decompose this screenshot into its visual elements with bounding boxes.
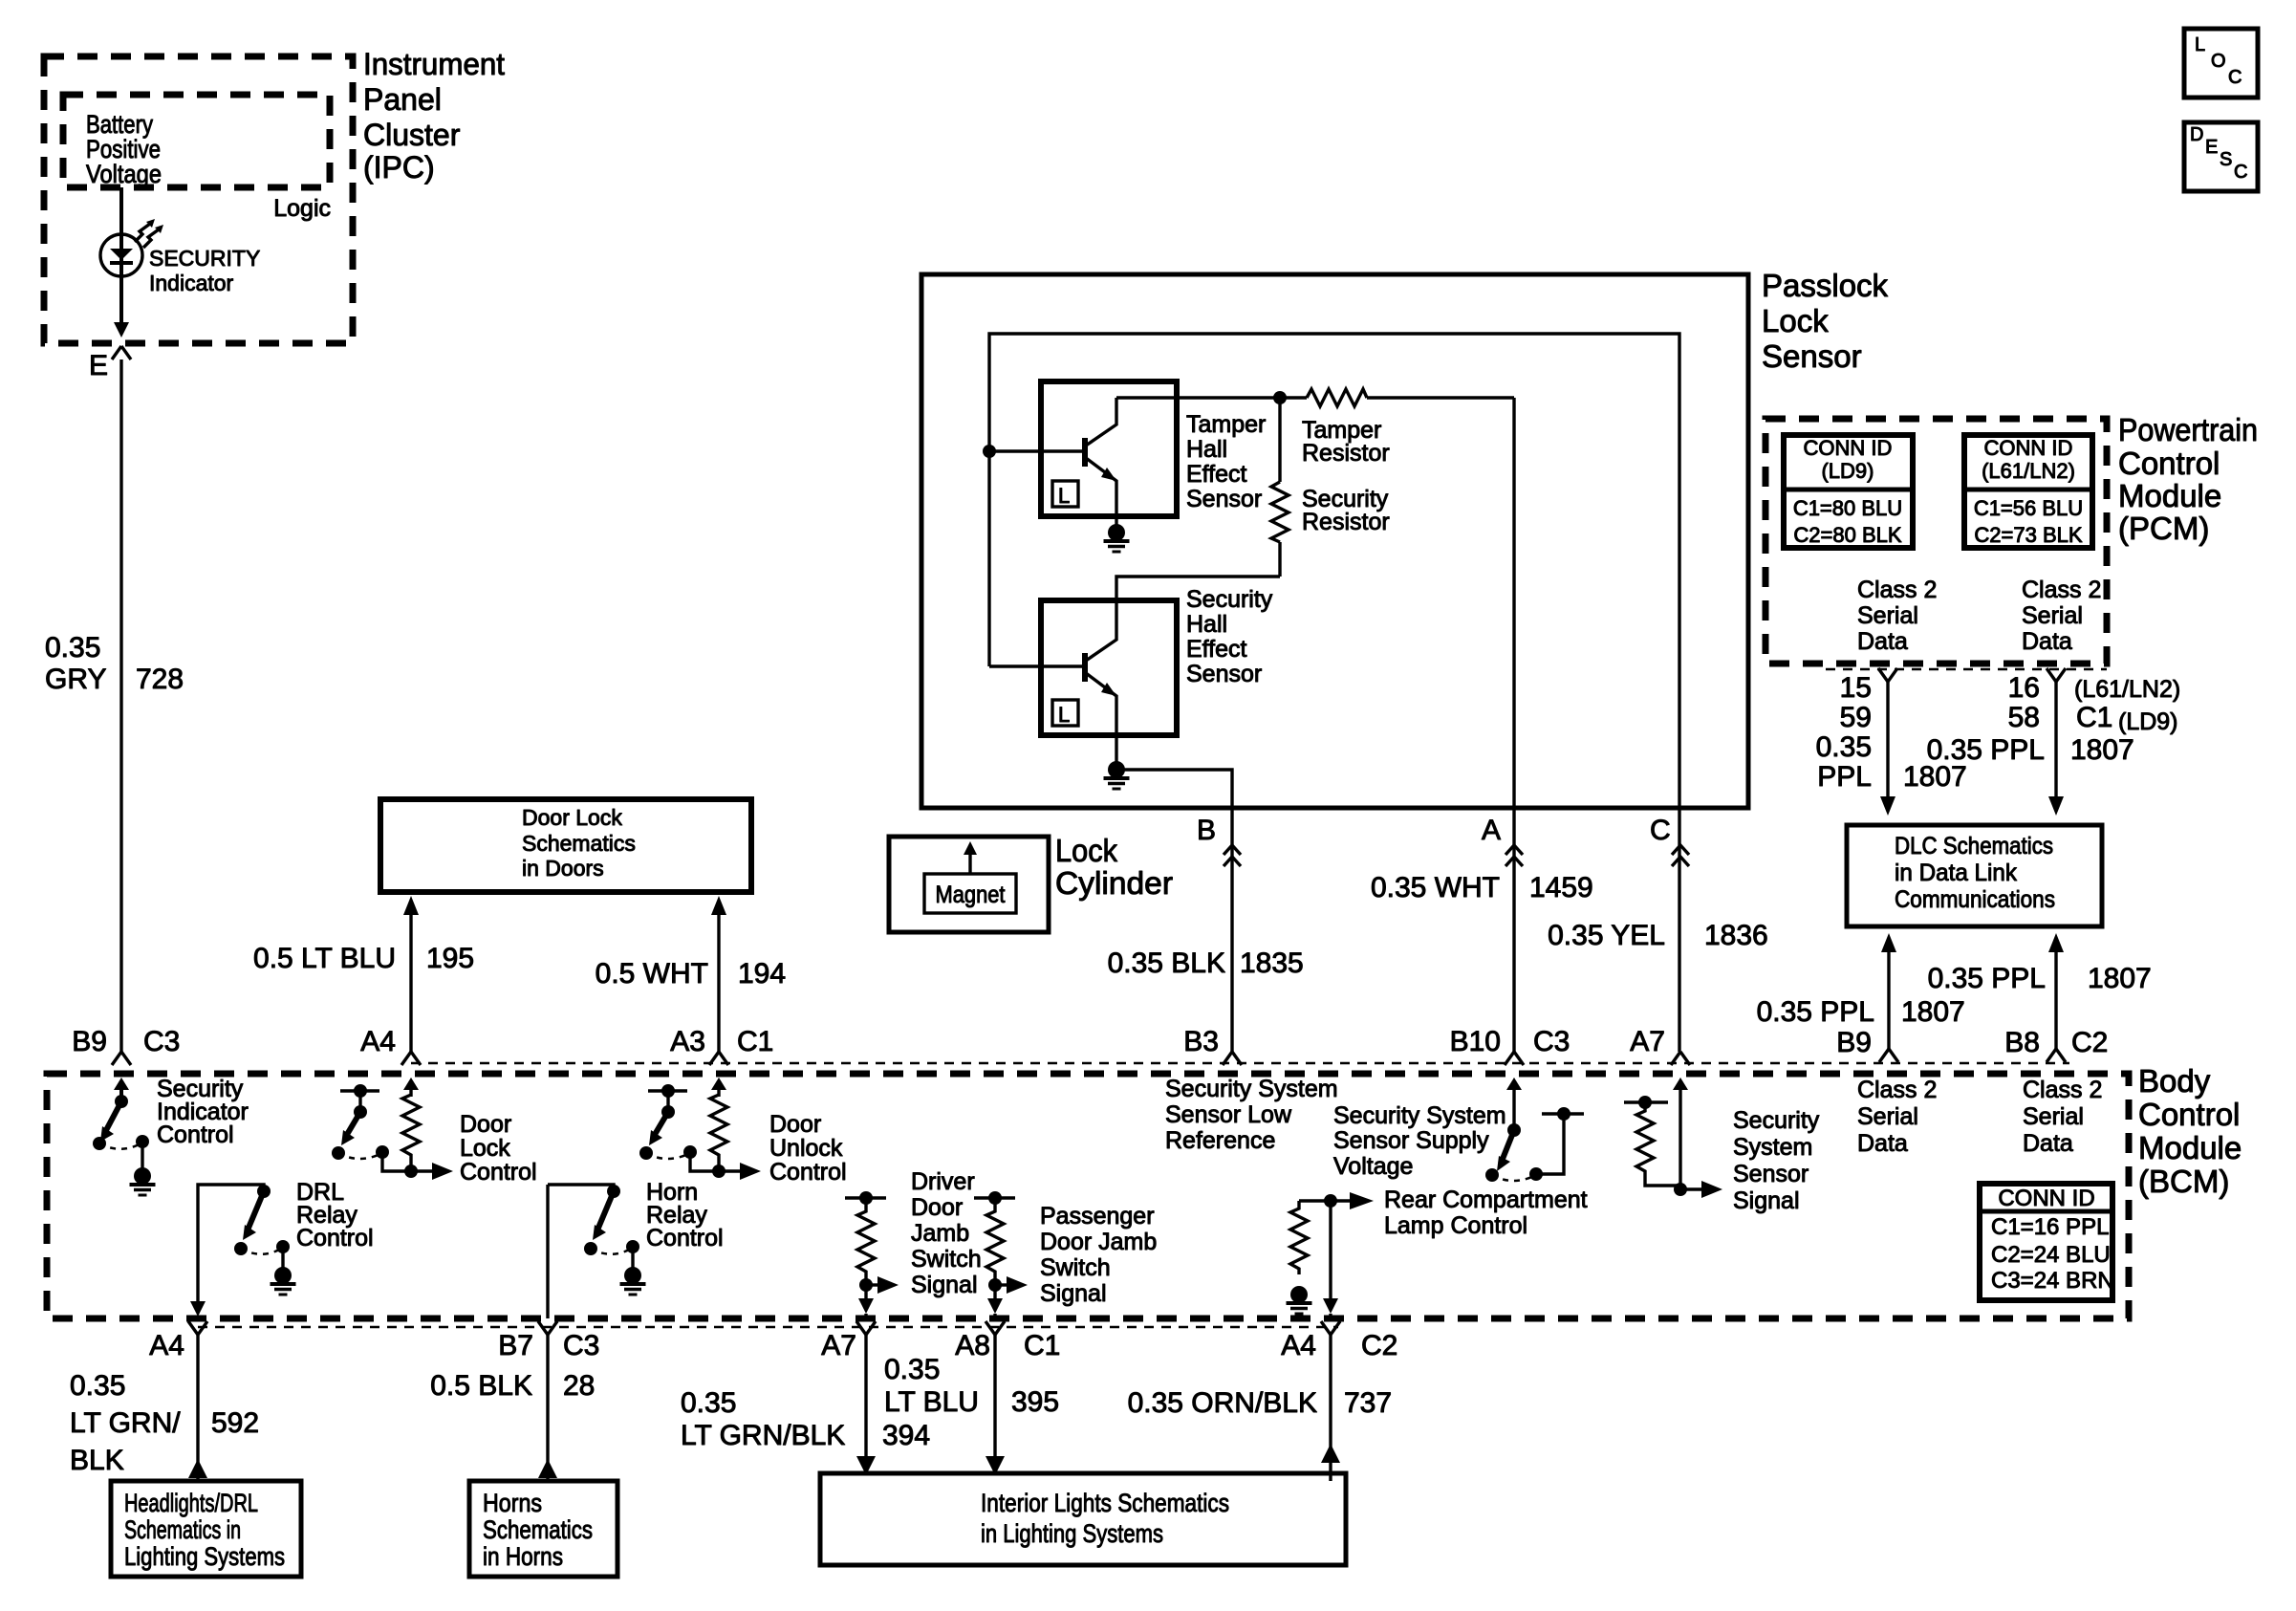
svg-text:Sensor: Sensor bbox=[1186, 486, 1262, 512]
svg-text:A3: A3 bbox=[670, 1026, 705, 1057]
svg-text:Driver: Driver bbox=[911, 1168, 975, 1195]
svg-text:Passenger: Passenger bbox=[1040, 1203, 1155, 1230]
svg-text:Lock: Lock bbox=[1762, 303, 1829, 338]
svg-text:Hall: Hall bbox=[1186, 611, 1227, 638]
svg-text:in Lighting Systems: in Lighting Systems bbox=[981, 1519, 1163, 1548]
svg-text:C1: C1 bbox=[737, 1026, 773, 1057]
svg-text:C1=16 PPL: C1=16 PPL bbox=[1991, 1214, 2109, 1240]
svg-text:Communications: Communications bbox=[1895, 886, 2055, 913]
svg-text:C2=24 BLU: C2=24 BLU bbox=[1991, 1242, 2111, 1268]
svg-text:Door: Door bbox=[460, 1111, 511, 1138]
svg-text:195: 195 bbox=[426, 943, 474, 974]
svg-text:Data: Data bbox=[2023, 1130, 2073, 1157]
svg-text:Control: Control bbox=[157, 1121, 234, 1148]
svg-text:Voltage: Voltage bbox=[1333, 1153, 1413, 1180]
svg-text:E: E bbox=[2205, 137, 2218, 158]
svg-text:Switch: Switch bbox=[1040, 1254, 1111, 1281]
svg-text:Signal: Signal bbox=[911, 1272, 978, 1298]
svg-text:(L61/LN2): (L61/LN2) bbox=[2074, 676, 2180, 703]
svg-text:Horns: Horns bbox=[483, 1489, 542, 1517]
svg-text:Door: Door bbox=[769, 1111, 821, 1138]
svg-text:in Data Link: in Data Link bbox=[1895, 860, 2017, 886]
svg-text:CONN ID: CONN ID bbox=[1984, 436, 2073, 460]
svg-text:Powertrain: Powertrain bbox=[2118, 412, 2258, 447]
svg-text:Passlock: Passlock bbox=[1762, 268, 1889, 303]
svg-text:A4: A4 bbox=[1281, 1330, 1316, 1361]
svg-text:Door Lock: Door Lock bbox=[522, 805, 622, 830]
svg-text:Cluster: Cluster bbox=[363, 118, 461, 152]
svg-text:Control: Control bbox=[769, 1159, 847, 1186]
svg-text:C1: C1 bbox=[1024, 1330, 1060, 1361]
svg-text:Reference: Reference bbox=[1165, 1127, 1275, 1154]
svg-text:0.35 WHT: 0.35 WHT bbox=[1371, 872, 1500, 903]
svg-text:B9: B9 bbox=[72, 1026, 107, 1057]
svg-text:C2: C2 bbox=[2071, 1027, 2108, 1058]
svg-text:0.5 WHT: 0.5 WHT bbox=[596, 958, 708, 990]
svg-text:Serial: Serial bbox=[2022, 602, 2083, 629]
svg-text:Voltage: Voltage bbox=[86, 160, 162, 188]
svg-text:C: C bbox=[2228, 67, 2242, 88]
svg-text:1459: 1459 bbox=[1529, 872, 1593, 903]
svg-text:B3: B3 bbox=[1183, 1026, 1219, 1057]
svg-text:Panel: Panel bbox=[363, 82, 442, 117]
svg-text:(LD9): (LD9) bbox=[1821, 459, 1874, 483]
svg-text:L: L bbox=[1058, 484, 1070, 508]
svg-text:Lighting Systems: Lighting Systems bbox=[124, 1542, 285, 1571]
svg-text:Security System: Security System bbox=[1333, 1102, 1506, 1129]
svg-text:C1=80 BLU: C1=80 BLU bbox=[1793, 496, 1902, 520]
svg-text:System: System bbox=[1733, 1134, 1812, 1161]
svg-text:C3: C3 bbox=[1533, 1026, 1570, 1057]
svg-text:Control: Control bbox=[296, 1225, 374, 1252]
svg-text:C2: C2 bbox=[1361, 1330, 1397, 1361]
svg-text:(LD9): (LD9) bbox=[2118, 708, 2178, 735]
svg-text:1807: 1807 bbox=[2088, 963, 2152, 994]
svg-text:Sensor: Sensor bbox=[1186, 661, 1262, 687]
svg-text:Class 2: Class 2 bbox=[1857, 1077, 1937, 1103]
svg-text:194: 194 bbox=[738, 958, 786, 990]
svg-text:LT BLU: LT BLU bbox=[884, 1386, 979, 1418]
svg-text:S: S bbox=[2220, 149, 2232, 170]
svg-text:in Doors: in Doors bbox=[522, 856, 604, 881]
svg-text:0.35: 0.35 bbox=[884, 1354, 940, 1385]
svg-text:Signal: Signal bbox=[1040, 1280, 1107, 1307]
svg-text:Signal: Signal bbox=[1733, 1187, 1800, 1214]
svg-text:728: 728 bbox=[136, 664, 184, 695]
svg-text:O: O bbox=[2211, 51, 2226, 72]
svg-text:Schematics in: Schematics in bbox=[124, 1515, 241, 1544]
svg-text:Schematics: Schematics bbox=[522, 831, 636, 856]
svg-text:58: 58 bbox=[2008, 702, 2040, 733]
svg-text:737: 737 bbox=[1344, 1387, 1392, 1419]
svg-text:C: C bbox=[2234, 162, 2247, 183]
svg-text:Class 2: Class 2 bbox=[1857, 577, 1937, 603]
svg-text:15: 15 bbox=[1840, 672, 1872, 704]
svg-text:1807: 1807 bbox=[2070, 734, 2134, 766]
svg-text:(BCM): (BCM) bbox=[2138, 1164, 2229, 1199]
svg-text:Cylinder: Cylinder bbox=[1055, 865, 1173, 901]
svg-text:L: L bbox=[1058, 703, 1070, 727]
svg-text:Sensor Low: Sensor Low bbox=[1165, 1101, 1292, 1128]
svg-text:Effect: Effect bbox=[1186, 636, 1247, 663]
svg-text:Schematics: Schematics bbox=[483, 1515, 593, 1544]
svg-text:A7: A7 bbox=[1630, 1026, 1665, 1057]
svg-text:GRY: GRY bbox=[45, 664, 106, 695]
svg-text:Lamp Control: Lamp Control bbox=[1384, 1212, 1527, 1239]
svg-text:CONN ID: CONN ID bbox=[1998, 1186, 2094, 1211]
svg-text:Module: Module bbox=[2118, 478, 2221, 513]
svg-text:LT GRN/BLK: LT GRN/BLK bbox=[681, 1420, 845, 1451]
svg-text:Security: Security bbox=[1733, 1107, 1820, 1134]
svg-text:Security: Security bbox=[1186, 586, 1273, 613]
svg-text:0.35 PPL: 0.35 PPL bbox=[1928, 963, 2046, 994]
svg-text:Interior Lights Schematics: Interior Lights Schematics bbox=[981, 1489, 1229, 1517]
svg-text:A4: A4 bbox=[360, 1026, 396, 1057]
svg-text:A4: A4 bbox=[149, 1330, 184, 1361]
svg-text:16: 16 bbox=[2008, 672, 2040, 704]
svg-text:Door Jamb: Door Jamb bbox=[1040, 1229, 1157, 1255]
svg-text:E: E bbox=[89, 350, 108, 381]
svg-text:(IPC): (IPC) bbox=[363, 150, 435, 185]
svg-text:B: B bbox=[1197, 815, 1216, 846]
svg-text:A7: A7 bbox=[821, 1330, 856, 1361]
svg-text:Tamper: Tamper bbox=[1186, 411, 1266, 438]
svg-text:BLK: BLK bbox=[70, 1445, 124, 1476]
svg-text:A: A bbox=[1482, 815, 1501, 846]
svg-text:Effect: Effect bbox=[1186, 461, 1247, 488]
svg-text:B10: B10 bbox=[1450, 1026, 1501, 1057]
svg-text:D: D bbox=[2190, 124, 2203, 145]
svg-text:Indicator: Indicator bbox=[149, 271, 234, 295]
svg-text:0.35 PPL: 0.35 PPL bbox=[1927, 734, 2045, 766]
svg-text:Door: Door bbox=[911, 1194, 963, 1221]
svg-text:L: L bbox=[2195, 34, 2205, 55]
svg-text:A8: A8 bbox=[955, 1330, 990, 1361]
svg-text:C2=73 BLK: C2=73 BLK bbox=[1974, 523, 2082, 547]
svg-text:Headlights/DRL: Headlights/DRL bbox=[124, 1489, 258, 1517]
svg-text:(L61/LN2): (L61/LN2) bbox=[1982, 459, 2075, 483]
svg-text:Instrument: Instrument bbox=[363, 47, 505, 81]
svg-text:in Horns: in Horns bbox=[483, 1542, 563, 1571]
svg-text:592: 592 bbox=[211, 1407, 259, 1439]
svg-text:Control: Control bbox=[460, 1159, 537, 1186]
svg-text:0.35 YEL: 0.35 YEL bbox=[1548, 920, 1665, 951]
svg-text:Lock: Lock bbox=[460, 1135, 510, 1162]
svg-text:59: 59 bbox=[1840, 702, 1872, 733]
svg-text:B9: B9 bbox=[1836, 1027, 1872, 1058]
svg-text:Control: Control bbox=[2118, 446, 2220, 481]
svg-text:Data: Data bbox=[1857, 628, 1908, 655]
svg-text:Rear Compartment: Rear Compartment bbox=[1384, 1186, 1588, 1213]
svg-text:Body: Body bbox=[2138, 1063, 2211, 1099]
svg-text:Sensor Supply: Sensor Supply bbox=[1333, 1127, 1489, 1154]
svg-text:C3=24 BRN: C3=24 BRN bbox=[1991, 1268, 2114, 1294]
svg-text:Sensor: Sensor bbox=[1762, 338, 1862, 374]
svg-text:Class 2: Class 2 bbox=[2023, 1077, 2102, 1103]
svg-text:Data: Data bbox=[1857, 1130, 1908, 1157]
svg-text:Unlock: Unlock bbox=[769, 1135, 843, 1162]
svg-text:Sensor: Sensor bbox=[1733, 1161, 1809, 1187]
svg-text:PPL: PPL bbox=[1817, 761, 1872, 793]
svg-text:SECURITY: SECURITY bbox=[149, 246, 260, 271]
svg-text:(PCM): (PCM) bbox=[2118, 511, 2209, 546]
svg-text:0.5 BLK: 0.5 BLK bbox=[430, 1370, 532, 1402]
svg-text:CONN ID: CONN ID bbox=[1804, 436, 1893, 460]
svg-text:B8: B8 bbox=[2004, 1027, 2040, 1058]
svg-text:Class 2: Class 2 bbox=[2022, 577, 2101, 603]
svg-text:0.35: 0.35 bbox=[70, 1370, 125, 1402]
svg-text:0.35 PPL: 0.35 PPL bbox=[1757, 996, 1874, 1028]
svg-text:0.35: 0.35 bbox=[1816, 731, 1872, 763]
svg-text:Control: Control bbox=[646, 1225, 724, 1252]
svg-text:0.35 BLK: 0.35 BLK bbox=[1108, 947, 1225, 979]
svg-text:Resistor: Resistor bbox=[1302, 440, 1390, 467]
svg-text:1835: 1835 bbox=[1240, 947, 1304, 979]
svg-text:394: 394 bbox=[882, 1420, 930, 1451]
svg-text:Magnet: Magnet bbox=[936, 882, 1006, 908]
svg-text:Data: Data bbox=[2022, 628, 2072, 655]
svg-text:C3: C3 bbox=[143, 1026, 180, 1057]
svg-text:Switch: Switch bbox=[911, 1246, 982, 1273]
svg-text:Hall: Hall bbox=[1186, 436, 1227, 463]
svg-text:C: C bbox=[1650, 815, 1671, 846]
svg-text:28: 28 bbox=[563, 1370, 595, 1402]
svg-text:0.35: 0.35 bbox=[681, 1387, 736, 1419]
svg-text:Resistor: Resistor bbox=[1302, 509, 1390, 535]
svg-text:0.35 ORN/BLK: 0.35 ORN/BLK bbox=[1128, 1387, 1317, 1419]
svg-text:C1=56 BLU: C1=56 BLU bbox=[1974, 496, 2083, 520]
svg-text:Logic: Logic bbox=[273, 195, 331, 222]
svg-text:LT GRN/: LT GRN/ bbox=[70, 1407, 181, 1439]
svg-text:1807: 1807 bbox=[1901, 996, 1965, 1028]
svg-text:0.35: 0.35 bbox=[45, 632, 100, 664]
svg-text:Lock: Lock bbox=[1055, 833, 1117, 868]
svg-text:C1: C1 bbox=[2076, 702, 2112, 733]
svg-text:Serial: Serial bbox=[1857, 1103, 1918, 1130]
svg-text:C3: C3 bbox=[563, 1330, 599, 1361]
svg-text:C2=80 BLK: C2=80 BLK bbox=[1793, 523, 1901, 547]
svg-text:Jamb: Jamb bbox=[911, 1220, 969, 1247]
svg-text:Serial: Serial bbox=[1857, 602, 1918, 629]
svg-text:Serial: Serial bbox=[2023, 1103, 2084, 1130]
svg-text:Control: Control bbox=[2138, 1097, 2240, 1132]
svg-text:Security System: Security System bbox=[1165, 1076, 1338, 1102]
svg-text:Module: Module bbox=[2138, 1130, 2242, 1165]
svg-text:B7: B7 bbox=[498, 1330, 533, 1361]
svg-text:395: 395 bbox=[1011, 1386, 1059, 1418]
svg-text:0.5 LT BLU: 0.5 LT BLU bbox=[253, 943, 396, 974]
svg-text:DLC Schematics: DLC Schematics bbox=[1895, 833, 2053, 860]
svg-text:1836: 1836 bbox=[1704, 920, 1768, 951]
